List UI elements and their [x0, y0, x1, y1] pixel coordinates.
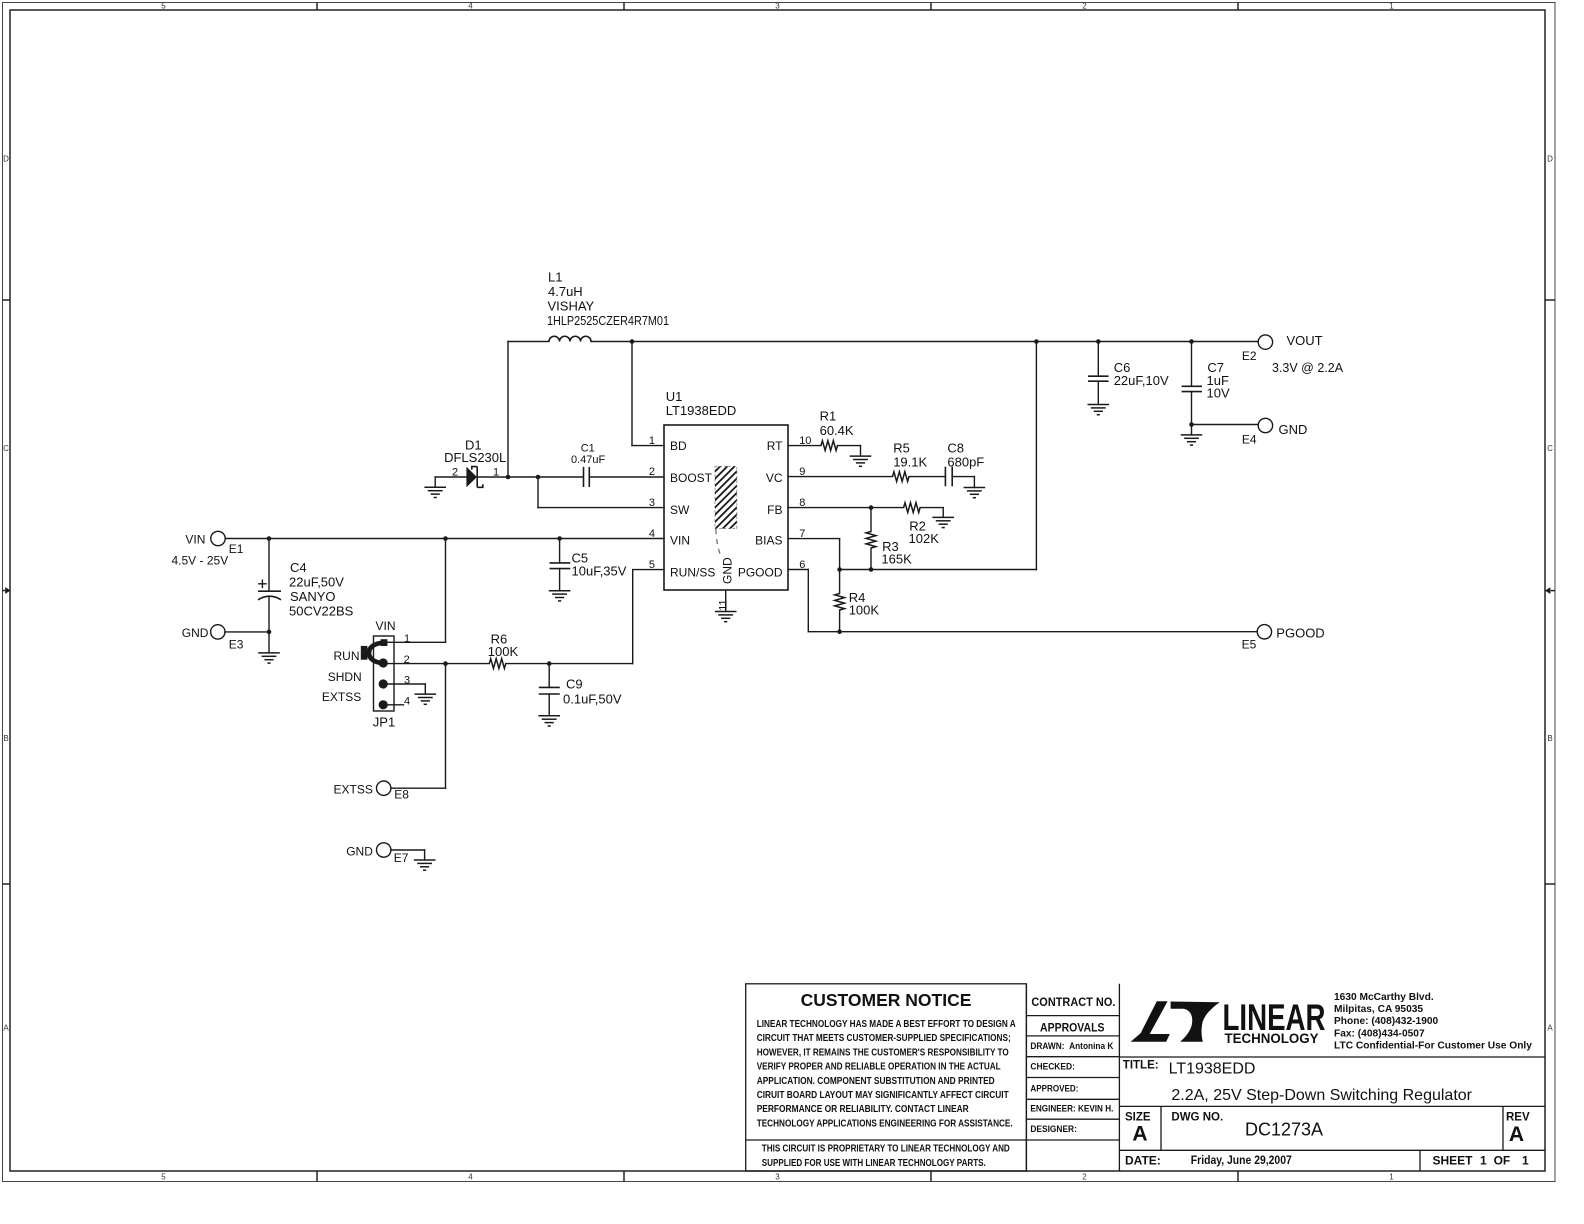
svg-text:2: 2 [404, 654, 410, 666]
svg-text:10uF,35V: 10uF,35V [572, 564, 627, 579]
capacitor C1 0.47uF [583, 467, 585, 487]
svg-text:A: A [1509, 1123, 1524, 1146]
node C4 branch [267, 536, 272, 541]
svg-text:3: 3 [649, 497, 655, 509]
node C5 branch [557, 536, 562, 541]
capacitor C5 10uF,35V [559, 539, 561, 563]
svg-text:C: C [3, 444, 9, 453]
svg-text:1: 1 [404, 633, 410, 645]
IC U1 LT1938EDD [664, 425, 788, 590]
resistor R3 165K [870, 508, 872, 532]
svg-text:5: 5 [161, 1173, 166, 1182]
svg-text:BIAS: BIAS [755, 534, 782, 548]
svg-text:E2: E2 [1242, 349, 1257, 363]
node EXTSS branch [443, 661, 448, 666]
svg-text:1: 1 [1389, 1173, 1394, 1182]
svg-text:DRAWN: Antonina K: DRAWN: Antonina K [1030, 1041, 1113, 1052]
svg-text:VIN: VIN [376, 619, 396, 633]
resistor R4 100K [839, 570, 841, 594]
JP1 shunt (RUN position) [367, 640, 384, 665]
terminal E5 PGOOD [1257, 625, 1271, 639]
svg-text:SHDN: SHDN [328, 670, 362, 684]
svg-text:C1: C1 [581, 442, 595, 454]
terminal E1 VIN [211, 531, 225, 545]
svg-text:TITLE:: TITLE: [1123, 1060, 1159, 1072]
node E3 junction [267, 630, 272, 635]
svg-text:A: A [1547, 1024, 1553, 1033]
svg-text:19.1K: 19.1K [893, 454, 927, 469]
svg-text:BOOST: BOOST [670, 471, 713, 485]
ground pin 11 [715, 612, 737, 622]
border center arrow right [1551, 590, 1556, 592]
svg-text:APPROVALS: APPROVALS [1040, 1022, 1105, 1034]
svg-text:APPLICATION. COMPONENT SUBSTI: APPLICATION. COMPONENT SUBSTITUTION AND … [757, 1076, 995, 1087]
svg-text:D: D [1547, 155, 1553, 164]
svg-text:C8: C8 [947, 441, 964, 456]
svg-text:EXTSS: EXTSS [322, 690, 361, 704]
svg-text:E3: E3 [229, 638, 244, 652]
svg-text:VERIFY PROPER AND RELIABLE OPE: VERIFY PROPER AND RELIABLE OPERATION IN … [757, 1062, 1001, 1073]
svg-text:100K: 100K [849, 603, 880, 618]
svg-text:GND: GND [721, 557, 735, 584]
svg-text:4: 4 [649, 528, 655, 540]
capacitor C9 0.1uF,50V [548, 664, 550, 688]
svg-text:SHEET: SHEET [1433, 1154, 1474, 1168]
svg-text:GND: GND [346, 845, 373, 859]
wire RUN/SS pin5 [633, 569, 664, 571]
svg-text:E5: E5 [1242, 637, 1257, 651]
svg-text:C: C [1547, 444, 1553, 453]
svg-text:ENGINEER: KEVIN H.: ENGINEER: KEVIN H. [1030, 1104, 1113, 1115]
svg-text:RUN: RUN [334, 649, 360, 663]
terminal E2 VOUT [1258, 335, 1272, 349]
ground below C4 [258, 653, 280, 663]
svg-text:1: 1 [1522, 1154, 1529, 1168]
border center arrow left [3, 590, 6, 592]
svg-text:22uF,10V: 22uF,10V [1114, 373, 1169, 388]
svg-text:3.3V @ 2.2A: 3.3V @ 2.2A [1272, 361, 1344, 375]
svg-text:680pF: 680pF [947, 454, 984, 469]
svg-text:U1: U1 [666, 389, 683, 404]
ground at E7 [414, 860, 436, 870]
svg-text:L1: L1 [548, 270, 562, 285]
svg-text:FB: FB [767, 503, 782, 517]
svg-text:4: 4 [468, 1173, 473, 1182]
svg-text:PGOOD: PGOOD [1276, 625, 1324, 640]
svg-text:10V: 10V [1207, 386, 1230, 401]
svg-text:0.1uF,50V: 0.1uF,50V [563, 692, 622, 707]
svg-text:OF: OF [1494, 1154, 1511, 1168]
svg-text:REV: REV [1506, 1111, 1530, 1123]
ground at D1 anode [434, 477, 436, 487]
svg-text:B: B [3, 734, 8, 743]
node SW branch [536, 475, 541, 480]
svg-text:0.47uF: 0.47uF [571, 454, 606, 466]
ground at C7 [1181, 435, 1203, 445]
wire boost row [477, 476, 583, 478]
svg-text:Friday, June 29,2007: Friday, June 29,2007 [1191, 1153, 1292, 1167]
capacitor C4 22uF,50V electrolytic [268, 539, 270, 592]
title block: title row [1119, 1105, 1545, 1107]
svg-text:R1: R1 [820, 409, 837, 424]
svg-text:102K: 102K [909, 531, 940, 546]
svg-text:4: 4 [404, 696, 410, 708]
U1 pin 11 stub [725, 590, 727, 612]
svg-text:3: 3 [775, 2, 780, 11]
diode D1 DFLS230L [435, 476, 466, 478]
terminal E8 EXTSS [391, 787, 446, 789]
svg-text:LINEAR TECHNOLOGY HAS MADE A: LINEAR TECHNOLOGY HAS MADE A BEST EFFORT… [757, 1019, 1017, 1030]
wire BIAS pin7 [788, 538, 840, 540]
svg-text:1: 1 [1480, 1154, 1487, 1168]
svg-text:LT1938EDD: LT1938EDD [666, 403, 737, 418]
resistor R5 19.1K on VC [788, 476, 893, 478]
svg-text:DATE:: DATE: [1125, 1154, 1161, 1168]
svg-text:A: A [1132, 1123, 1147, 1146]
ground at JP1 pin3 [415, 694, 437, 704]
svg-text:5: 5 [161, 2, 166, 11]
ground at C9 [538, 716, 560, 726]
svg-text:THIS CIRCUIT IS PROPRIETARY TO: THIS CIRCUIT IS PROPRIETARY TO LINEAR TE… [762, 1144, 1010, 1155]
svg-text:BD: BD [670, 439, 687, 453]
svg-text:C9: C9 [566, 677, 583, 692]
svg-text:3: 3 [775, 1173, 780, 1182]
node JP1 branch [443, 536, 448, 541]
node C9 branch [547, 661, 552, 666]
svg-text:50CV22BS: 50CV22BS [289, 604, 354, 619]
svg-text:2: 2 [1082, 2, 1087, 11]
svg-text:D: D [3, 155, 9, 164]
svg-text:1HLP2525CZER4R7M01: 1HLP2525CZER4R7M01 [547, 313, 669, 328]
svg-text:22uF,50V: 22uF,50V [289, 575, 344, 590]
terminal E3 GND [211, 625, 225, 639]
svg-text:E4: E4 [1242, 433, 1257, 447]
wire BIAS junction row [840, 569, 1037, 571]
svg-text:1: 1 [649, 435, 655, 447]
wire SW branch [537, 477, 539, 508]
svg-text:CIRCUIT THAT MEETS CUSTOMER-SU: CIRCUIT THAT MEETS CUSTOMER-SUPPLIED SPE… [757, 1033, 1011, 1044]
svg-text:SIZE: SIZE [1125, 1111, 1151, 1123]
node R3 top [869, 505, 874, 510]
svg-text:SW: SW [670, 503, 690, 517]
terminal E7 GND [377, 843, 391, 857]
svg-text:RT: RT [767, 439, 783, 453]
svg-text:E7: E7 [394, 851, 409, 865]
jumper JP1 [374, 636, 395, 711]
capacitor C7 1uF 10V [1189, 339, 1194, 344]
wire BIAS to VOUT vertical [1035, 342, 1037, 570]
svg-text:PERFORMANCE OR RELIABILITY. C: PERFORMANCE OR RELIABILITY. CONTACT LINE… [757, 1104, 970, 1115]
svg-text:GND: GND [182, 626, 209, 640]
svg-text:1630 McCarthy Blvd.: 1630 McCarthy Blvd. [1334, 992, 1434, 1003]
svg-text:Milpitas, CA 95035: Milpitas, CA 95035 [1334, 1004, 1423, 1015]
wire FB row [788, 507, 904, 509]
JP1 pin1 wire [387, 641, 445, 643]
title block: date row [1419, 1150, 1421, 1171]
svg-text:100K: 100K [488, 644, 519, 659]
svg-text:C4: C4 [290, 560, 307, 575]
JP1 pin3 wire to ground [388, 683, 426, 685]
ground at C6 [1088, 405, 1110, 415]
inductor L1 [549, 336, 591, 341]
svg-text:2.2A, 25V Step-Down Switching: 2.2A, 25V Step-Down Switching Regulator [1171, 1087, 1472, 1104]
svg-text:Fax: (408)434-0507: Fax: (408)434-0507 [1334, 1028, 1425, 1039]
title block: size/dwg/rev row [1119, 1149, 1545, 1151]
border zone ticks [316, 3, 318, 11]
svg-text:CUSTOMER NOTICE: CUSTOMER NOTICE [801, 990, 972, 1010]
title block: logo row [1119, 1056, 1545, 1058]
svg-text:R5: R5 [893, 441, 910, 456]
svg-text:PGOOD: PGOOD [738, 566, 783, 580]
resistor R1 60.4K on RT [788, 445, 821, 447]
svg-text:SANYO: SANYO [290, 589, 336, 604]
svg-text:1: 1 [1389, 2, 1394, 11]
svg-text:165K: 165K [881, 552, 912, 567]
svg-text:E1: E1 [229, 542, 244, 556]
svg-text:HOWEVER, IT REMAINS THE CUSTOM: HOWEVER, IT REMAINS THE CUSTOMER'S RESPO… [757, 1047, 1009, 1058]
wire BD drop [631, 342, 633, 446]
svg-text:CONTRACT NO.: CONTRACT NO. [1031, 997, 1115, 1009]
svg-text:2: 2 [452, 467, 458, 479]
terminal E4 GND [1192, 424, 1259, 426]
Linear Technology logo mark [1131, 1001, 1170, 1041]
capacitor C6 22uF,10V [1096, 339, 1101, 344]
svg-text:4.5V - 25V: 4.5V - 25V [172, 554, 229, 568]
wire VIN row [225, 538, 664, 540]
ground at R2 [932, 517, 954, 527]
svg-text:VIN: VIN [670, 534, 690, 548]
svg-text:VIN: VIN [185, 532, 205, 546]
U1 pad dashed lead [716, 529, 722, 557]
svg-text:VOUT: VOUT [1287, 333, 1323, 348]
wire boost left drop [507, 342, 509, 478]
svg-text:E8: E8 [394, 788, 409, 802]
svg-text:JP1: JP1 [373, 715, 395, 730]
svg-text:LT1938EDD: LT1938EDD [1169, 1061, 1256, 1078]
svg-text:SUPPLIED FOR USE WITH LINEAR T: SUPPLIED FOR USE WITH LINEAR TECHNOLOGY … [762, 1158, 986, 1169]
svg-text:TECHNOLOGY APPLICATIONS ENGINE: TECHNOLOGY APPLICATIONS ENGINEERING FOR … [757, 1118, 1013, 1129]
svg-text:60.4K: 60.4K [820, 423, 854, 438]
svg-text:TECHNOLOGY: TECHNOLOGY [1225, 1030, 1320, 1046]
svg-text:Phone: (408)432-1900: Phone: (408)432-1900 [1334, 1016, 1439, 1027]
wire PGOOD pin6 [788, 569, 808, 571]
svg-text:DFLS230L: DFLS230L [444, 450, 506, 465]
node boost corner [506, 475, 511, 480]
svg-text:DC1273A: DC1273A [1245, 1119, 1323, 1139]
svg-text:3: 3 [404, 675, 410, 687]
wire VOUT top rail [508, 341, 549, 343]
svg-text:VISHAY: VISHAY [548, 299, 595, 314]
svg-text:4.7uH: 4.7uH [548, 284, 583, 299]
svg-text:4: 4 [468, 2, 473, 11]
ground at C5 [549, 591, 571, 601]
title block: approvals column [1025, 984, 1027, 1171]
svg-text:B: B [1547, 734, 1552, 743]
svg-text:VC: VC [766, 471, 783, 485]
ground at C8 [964, 488, 986, 498]
JP1 pin4 stub [388, 704, 404, 706]
svg-text:RUN/SS: RUN/SS [670, 566, 715, 580]
svg-text:APPROVED:: APPROVED: [1030, 1083, 1078, 1094]
ground at R1 [850, 456, 872, 466]
title block: customer notice box [746, 984, 1027, 1171]
JP1 pin2 wire [388, 663, 490, 665]
resistor R6 100K [489, 659, 506, 669]
node L1 output junction [630, 339, 635, 344]
wire EXTSS vertical [445, 664, 447, 789]
svg-text:GND: GND [1279, 422, 1308, 437]
capacitor C8 680pF [944, 467, 946, 487]
svg-text:EXTSS: EXTSS [334, 782, 373, 796]
svg-text:A: A [3, 1024, 9, 1033]
U1 exposed pad (hatched) [715, 466, 737, 528]
svg-text:CHECKED:: CHECKED: [1030, 1062, 1075, 1073]
svg-text:DWG NO.: DWG NO. [1171, 1111, 1223, 1123]
resistor R2 102K on FB [904, 503, 921, 513]
svg-text:2: 2 [649, 466, 655, 478]
svg-text:CIRUIT BOARD LAYOUT MAY SIGNIF: CIRUIT BOARD LAYOUT MAY SIGNIFICANTLY AF… [757, 1090, 1010, 1101]
svg-text:2: 2 [1082, 1173, 1087, 1182]
svg-text:LTC Confidential-For Customer: LTC Confidential-For Customer Use Only [1334, 1040, 1532, 1051]
svg-text:DESIGNER:: DESIGNER: [1030, 1124, 1077, 1135]
svg-text:11: 11 [717, 599, 729, 610]
